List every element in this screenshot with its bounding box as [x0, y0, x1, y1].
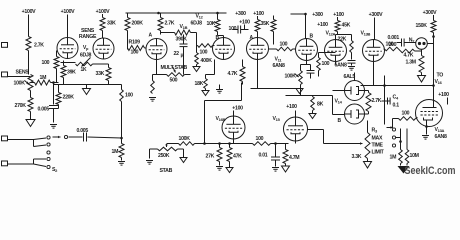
svg-text:2.7K: 2.7K	[165, 21, 175, 27]
svg-text:+300V: +300V	[423, 10, 437, 16]
svg-text:33K: 33K	[107, 21, 116, 27]
svg-text:6AN8: 6AN8	[335, 63, 347, 69]
svg-text:100: 100	[256, 136, 264, 142]
svg-text:+100: +100	[333, 12, 344, 18]
svg-text:0.005: 0.005	[77, 128, 89, 134]
svg-text:27K: 27K	[206, 154, 215, 160]
svg-text:STAB: STAB	[160, 168, 173, 174]
svg-text:250K: 250K	[158, 153, 170, 159]
svg-text:0.005: 0.005	[38, 107, 50, 113]
svg-text:+100: +100	[438, 92, 449, 98]
svg-text:22: 22	[174, 51, 180, 57]
svg-text:+100V: +100V	[22, 9, 36, 15]
svg-text:6AN8: 6AN8	[435, 134, 447, 140]
svg-text:0.001: 0.001	[388, 35, 400, 41]
svg-text:V1B: V1B	[180, 24, 188, 30]
svg-text:100: 100	[389, 42, 397, 48]
svg-text:270K: 270K	[15, 103, 27, 109]
svg-text:V12: V12	[196, 14, 204, 20]
svg-text:4.7K: 4.7K	[404, 53, 414, 59]
svg-text:1M: 1M	[390, 155, 397, 161]
svg-text:V13A: V13A	[435, 127, 445, 133]
svg-text:22K: 22K	[338, 37, 347, 43]
svg-text:V16B: V16B	[216, 116, 226, 122]
svg-text:400K: 400K	[201, 58, 213, 64]
svg-text:10M: 10M	[410, 153, 419, 159]
svg-text:+100: +100	[286, 104, 297, 110]
svg-text:2.7K: 2.7K	[34, 43, 44, 49]
svg-text:1K: 1K	[81, 67, 87, 73]
svg-text:100: 100	[402, 111, 410, 117]
svg-text:TO: TO	[437, 73, 444, 79]
svg-text:100: 100	[42, 60, 50, 66]
svg-text:V11: V11	[275, 57, 283, 63]
svg-text:Vp: Vp	[83, 45, 89, 51]
svg-text:10K: 10K	[207, 21, 216, 27]
svg-text:6DJ8: 6DJ8	[191, 21, 203, 27]
svg-text:220K: 220K	[63, 95, 75, 101]
svg-text:100K: 100K	[14, 81, 26, 87]
svg-text:R109: R109	[129, 40, 141, 46]
svg-text:39K: 39K	[67, 70, 76, 76]
svg-text:6AN8: 6AN8	[273, 63, 285, 69]
svg-text:+300V: +300V	[369, 12, 383, 18]
svg-text:18K: 18K	[195, 81, 204, 87]
svg-text:SeekIC.com: SeekIC.com	[405, 165, 456, 176]
svg-text:1M: 1M	[112, 149, 119, 155]
svg-text:1.3M: 1.3M	[406, 60, 416, 66]
svg-text:500: 500	[170, 78, 178, 84]
svg-text:4.7M: 4.7M	[289, 155, 299, 161]
svg-text:45K: 45K	[342, 23, 351, 29]
svg-text:8K: 8K	[317, 102, 324, 108]
svg-text:+300: +300	[312, 12, 323, 18]
svg-text:4.7K: 4.7K	[228, 71, 238, 77]
svg-text:LIMIT: LIMIT	[372, 150, 385, 156]
svg-text:TIME: TIME	[372, 143, 384, 149]
svg-text:1M: 1M	[40, 75, 47, 81]
svg-text:35K: 35K	[261, 21, 270, 27]
svg-text:100K: 100K	[179, 136, 191, 142]
svg-text:2.7K: 2.7K	[372, 98, 382, 104]
svg-text:33K: 33K	[96, 71, 105, 77]
svg-text:47K: 47K	[233, 154, 242, 160]
svg-text:V16: V16	[435, 79, 443, 85]
svg-text:3.3K: 3.3K	[352, 154, 362, 160]
svg-text:150K: 150K	[416, 23, 428, 29]
svg-text:RANGE: RANGE	[79, 34, 97, 40]
svg-text:+100V: +100V	[61, 9, 75, 15]
svg-text:V14: V14	[335, 99, 343, 105]
svg-text:100: 100	[322, 61, 330, 67]
svg-text:+300: +300	[235, 11, 246, 17]
svg-text:0.1: 0.1	[393, 103, 400, 109]
svg-text:100: 100	[280, 42, 288, 48]
svg-text:V15: V15	[273, 116, 281, 122]
svg-text:SENS: SENS	[16, 70, 30, 76]
svg-text:V12A: V12A	[326, 31, 336, 37]
svg-text:V13B: V13B	[361, 31, 371, 37]
svg-text:+100: +100	[317, 22, 328, 28]
svg-text:100: 100	[200, 50, 208, 56]
svg-text:MAX: MAX	[372, 136, 383, 142]
svg-text:100K: 100K	[285, 74, 297, 80]
svg-text:6AL5: 6AL5	[344, 74, 356, 80]
svg-text:0.01: 0.01	[259, 153, 268, 159]
svg-text:390K: 390K	[176, 37, 188, 43]
svg-text:100: 100	[125, 93, 133, 99]
svg-text:200K: 200K	[132, 21, 144, 27]
svg-text:+100: +100	[253, 11, 264, 17]
